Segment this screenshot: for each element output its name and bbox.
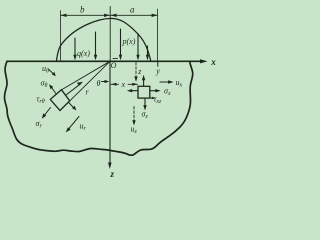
- node: origin tick: [113, 58, 118, 60]
- pressure distribution curve: [57, 18, 151, 60]
- svg-text:O: O: [111, 61, 117, 70]
- sigma_x left arrow: [130, 90, 139, 92]
- x offset dimension arrows: [111, 83, 138, 85]
- svg-text:b: b: [80, 4, 85, 14]
- radial fan line to element right corner: [70, 61, 110, 100]
- u_z displacement dashed arrow: [133, 107, 135, 123]
- svg-text:x: x: [121, 80, 126, 89]
- theta leader arrow: [102, 81, 107, 83]
- surface line / x-axis: [7, 60, 205, 62]
- polar stress element (rotated square): [50, 90, 69, 111]
- z offset dashed line: [135, 63, 137, 80]
- svg-text:p(x): p(x): [122, 37, 136, 46]
- sigma_r outer arrow: [44, 108, 51, 117]
- tau_xz arrow: [150, 97, 154, 99]
- node: center line / z-axis extension above surface: [109, 7, 111, 62]
- svg-text:θ: θ: [97, 79, 101, 88]
- arrowhead dim b right: [104, 14, 110, 17]
- svg-text:z: z: [110, 169, 115, 179]
- arrowhead x-axis: [200, 59, 208, 63]
- sigma_x right arrow: [150, 90, 158, 92]
- radial fan line to element top corner: [62, 61, 110, 89]
- u_x displacement arrow: [160, 81, 171, 83]
- arrowhead dim left: [61, 14, 67, 17]
- load arrow p1: [120, 29, 122, 59]
- half-space blob outline: [4, 61, 192, 155]
- load arrow q2: [95, 32, 97, 59]
- load arrow q1: [74, 38, 76, 59]
- arrowhead z-axis: [108, 163, 112, 170]
- sigma_z top arrow: [143, 78, 145, 87]
- sigma_theta upper arrow: [51, 87, 56, 94]
- extension line left (x=-b): [60, 11, 62, 62]
- sigma_theta lower arrow: [69, 103, 74, 109]
- extension line right (x=a): [157, 9, 159, 61]
- wire: dimension line b-a: [61, 14, 158, 16]
- u_r displacement arrow: [68, 117, 79, 130]
- load arrow p2: [137, 34, 139, 59]
- z-axis: [109, 61, 111, 164]
- arrowhead dim a right: [152, 14, 158, 17]
- sigma_z bottom arrow: [144, 99, 146, 108]
- svg-text:x: x: [210, 57, 216, 67]
- cartesian stress element square: [138, 86, 150, 98]
- svg-text:y: y: [155, 66, 160, 75]
- arrowhead dim a left: [111, 14, 117, 17]
- load arrow p3: [147, 46, 149, 59]
- y tick: [157, 62, 159, 66]
- svg-text:q(x): q(x): [77, 49, 90, 58]
- u_theta displacement arrow: [49, 70, 54, 75]
- svg-text:a: a: [130, 4, 135, 14]
- sigma_r inner arrow (toward O): [66, 84, 81, 95]
